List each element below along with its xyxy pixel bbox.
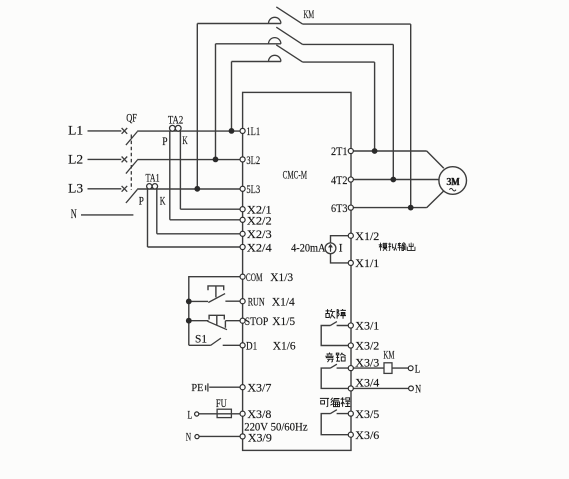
- svg-text:X3/3: X3/3: [355, 356, 379, 370]
- svg-text:TA2: TA2: [168, 114, 183, 126]
- svg-text:L2: L2: [68, 152, 83, 166]
- svg-text:1L1: 1L1: [246, 124, 260, 138]
- svg-text:4T2: 4T2: [331, 173, 348, 187]
- svg-text:N: N: [415, 382, 421, 396]
- svg-text:K: K: [160, 196, 166, 208]
- svg-text:S1: S1: [195, 333, 207, 345]
- svg-text:QF: QF: [126, 113, 137, 125]
- svg-text:CMC-M: CMC-M: [283, 168, 308, 182]
- svg-text:L3: L3: [68, 182, 83, 196]
- svg-text:X2/4: X2/4: [247, 240, 272, 254]
- svg-text:L: L: [415, 361, 421, 375]
- svg-text:FU: FU: [216, 398, 227, 410]
- svg-text:X2/2: X2/2: [247, 213, 272, 227]
- svg-text:X3/1: X3/1: [355, 319, 379, 333]
- svg-text:X3/4: X3/4: [355, 375, 379, 389]
- svg-text:X2/3: X2/3: [247, 227, 272, 241]
- svg-text:X3/5: X3/5: [355, 407, 379, 421]
- svg-text:K: K: [182, 135, 188, 147]
- svg-text:5L3: 5L3: [246, 182, 260, 196]
- svg-text:COM: COM: [246, 270, 263, 284]
- svg-text:PE: PE: [191, 382, 203, 394]
- svg-text:X1/6: X1/6: [273, 339, 296, 353]
- svg-text:3L2: 3L2: [246, 153, 260, 167]
- svg-text:N: N: [186, 429, 192, 443]
- svg-text:L1: L1: [68, 124, 83, 138]
- svg-text:X1/5: X1/5: [272, 314, 295, 328]
- svg-text:X1/4: X1/4: [272, 295, 295, 309]
- svg-text:P: P: [162, 136, 167, 148]
- svg-text:X1/2: X1/2: [355, 229, 379, 243]
- svg-text:STOP: STOP: [245, 314, 269, 328]
- svg-text:I: I: [339, 242, 343, 254]
- svg-text:N: N: [71, 207, 77, 221]
- svg-text:X1/3: X1/3: [270, 270, 293, 284]
- svg-text:X3/7: X3/7: [247, 381, 271, 395]
- svg-text:X3/2: X3/2: [355, 339, 379, 353]
- svg-text:2T1: 2T1: [331, 144, 348, 158]
- svg-text:TA1: TA1: [146, 173, 160, 185]
- svg-text:4-20mA: 4-20mA: [291, 243, 326, 255]
- svg-text:X3/6: X3/6: [355, 428, 379, 442]
- svg-text:KM: KM: [383, 349, 394, 361]
- svg-text:6T3: 6T3: [331, 201, 348, 215]
- svg-text:X1/1: X1/1: [355, 256, 379, 270]
- svg-text:RUN: RUN: [248, 295, 265, 309]
- svg-text:P: P: [139, 196, 144, 208]
- svg-text:3M: 3M: [447, 176, 460, 188]
- svg-text:X3/9: X3/9: [248, 430, 272, 444]
- svg-text:KM: KM: [304, 7, 315, 21]
- svg-text:D1: D1: [246, 339, 257, 353]
- svg-text:L: L: [188, 407, 193, 421]
